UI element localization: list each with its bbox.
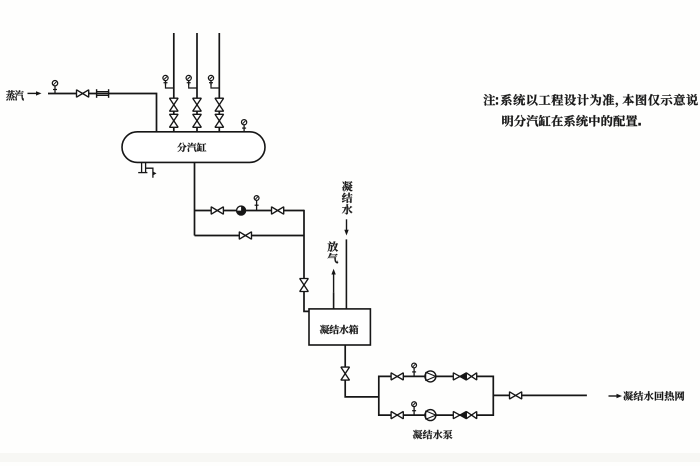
drain trap assembly under vessel xyxy=(138,163,156,178)
note text line 1 part b xyxy=(501,94,615,106)
tank: condensate tank 凝结水箱 xyxy=(309,309,370,345)
wire: bypass lower branch xyxy=(195,235,305,237)
wire: condensate output line xyxy=(493,394,587,396)
flow arrow condensate inlet (down) xyxy=(344,219,348,235)
wire: riser pipe 3 xyxy=(218,33,220,133)
pressure gauge PG2 riser 1 xyxy=(163,75,168,85)
wire: condensate inlet pipe xyxy=(345,239,347,309)
wire: gauge branch riser 1 xyxy=(166,83,174,88)
wire: steam inlet pipe to vessel xyxy=(48,94,157,133)
wire: vent pipe xyxy=(333,292,335,309)
wire: pump manifold rectangle xyxy=(379,376,494,415)
wire: trap line upper branch xyxy=(195,210,305,212)
note text line 1 part a xyxy=(483,94,495,106)
valve upper riser 3 xyxy=(215,98,224,111)
pressure gauge pump lower xyxy=(412,402,417,415)
fitting: flanged union on inlet xyxy=(97,89,109,98)
valve lower riser 1 xyxy=(170,114,179,127)
valve pump upper discharge gate xyxy=(466,373,476,380)
pump circle lower 凝结水泵 xyxy=(425,410,436,421)
pressure gauge PG3 riser 2 xyxy=(186,75,191,85)
wire: gauge branch riser 3 xyxy=(211,83,219,88)
valve pump lower suction xyxy=(391,412,403,419)
note text line 2 xyxy=(502,115,637,127)
check valve pump upper discharge xyxy=(453,373,460,380)
flow arrow vent (up) xyxy=(331,269,335,293)
valve upper riser 2 xyxy=(193,98,202,111)
label vessel 分汽缸 xyxy=(177,143,206,152)
pressure gauge pump upper xyxy=(412,363,417,376)
note text line 1 part c xyxy=(623,94,698,106)
valve V1 inlet gate valve xyxy=(77,90,89,97)
pump circle upper 凝结水泵 xyxy=(425,371,436,382)
pressure gauge PG6 on trap line xyxy=(254,196,259,211)
valve on tank inlet drop xyxy=(300,279,309,292)
valve bypass xyxy=(239,232,251,239)
wire: riser pipe 1 xyxy=(173,33,175,133)
flow arrow output xyxy=(609,394,623,398)
valve pump upper suction xyxy=(391,373,403,380)
pressure gauge PG1 on inlet xyxy=(52,81,57,94)
valve pump lower discharge gate xyxy=(466,412,476,419)
wire: drop pipe to condensate tank xyxy=(304,210,310,312)
valve on output line xyxy=(510,392,522,399)
valve downstream of trap xyxy=(272,207,284,214)
valve on tank outlet xyxy=(341,367,350,380)
label condensate inlet 凝结水 xyxy=(342,181,353,214)
note comma xyxy=(616,103,618,108)
pressure gauge PG4 riser 3 xyxy=(208,75,213,85)
flow arrow steam inlet xyxy=(28,91,42,95)
vessel: steam header 分汽缸 xyxy=(122,132,265,163)
label output 凝结水回热网 xyxy=(623,391,684,401)
steam trap (half-filled circle) xyxy=(236,206,245,215)
note period xyxy=(638,123,641,126)
valve lower riser 3 xyxy=(215,114,224,127)
valve upstream of trap xyxy=(211,207,223,214)
label vent 放气 xyxy=(328,241,339,263)
wire: vessel outlet drop pipe xyxy=(194,162,196,235)
pressure gauge PG5 on vessel xyxy=(242,120,247,132)
wire: bottom scan shading band xyxy=(0,453,700,462)
check valve pump lower discharge xyxy=(453,412,460,419)
label tank 凝结水箱 xyxy=(320,325,358,334)
valve upper riser 1 xyxy=(170,98,179,111)
label steam inlet 蒸汽 xyxy=(6,90,24,100)
label pumps 凝结水泵 xyxy=(413,430,453,439)
note colon xyxy=(496,97,498,104)
wire: tank outlet pipe to pump manifold xyxy=(345,345,379,397)
valve lower riser 2 xyxy=(193,114,202,127)
wire: gauge branch riser 2 xyxy=(189,83,197,88)
wire: riser pipe 2 xyxy=(196,33,198,133)
